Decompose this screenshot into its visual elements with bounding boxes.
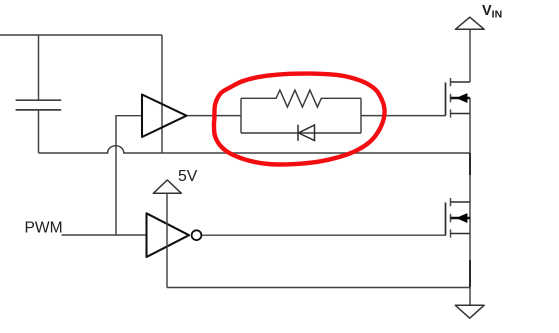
wire top rail from left edge to bootstrap corner <box>0 34 162 36</box>
wire buffer input branch vertical from PWM line <box>116 116 142 235</box>
wire capacitor top stem <box>38 35 40 100</box>
inverter output bubble <box>192 230 202 240</box>
transistor Q2 low-side MOSFET <box>446 198 471 238</box>
power VIN symbol triangle <box>455 17 484 29</box>
resistor R1 <box>241 90 361 107</box>
node network left vertical <box>240 98 242 133</box>
ground <box>455 305 484 318</box>
op-amp U1 buffer <box>142 95 187 138</box>
wire Q1 drain to VIN <box>469 29 471 82</box>
wire bottom ground rail <box>167 287 470 289</box>
svg-text:PWM: PWM <box>25 220 63 237</box>
wire darker overlap segment on switch-node vertical <box>469 153 471 175</box>
wire vertical from top rail down through buffer to switch node <box>161 35 163 153</box>
wire switch node horizontal with hop over PWM branch <box>39 146 471 153</box>
svg-text:VIN: VIN <box>482 3 502 21</box>
red annotation ellipse around R-D network <box>214 74 385 165</box>
wire 5V stem through inverter to ground rail <box>166 193 168 287</box>
wire capacitor bottom stem <box>38 110 40 153</box>
wire diode branch <box>241 132 361 134</box>
node network right vertical <box>360 98 362 133</box>
capacitor C1 <box>16 100 62 110</box>
wire buffer output to network <box>187 115 242 117</box>
transistor Q1 high-side MOSFET <box>446 78 471 118</box>
op-amp U2 inverter <box>147 213 190 257</box>
wire darker overlap segment above ground rail junction <box>469 260 471 287</box>
wire PWM input <box>62 234 147 236</box>
wire inverter output to low-side gate <box>202 234 445 236</box>
svg-text:5V: 5V <box>178 168 198 185</box>
power 5V symbol triangle <box>153 180 181 193</box>
diode D1 <box>298 125 315 141</box>
wire network output to high-side gate <box>361 115 446 117</box>
wire Q1 source down to Q2 drain and ground <box>469 98 471 305</box>
